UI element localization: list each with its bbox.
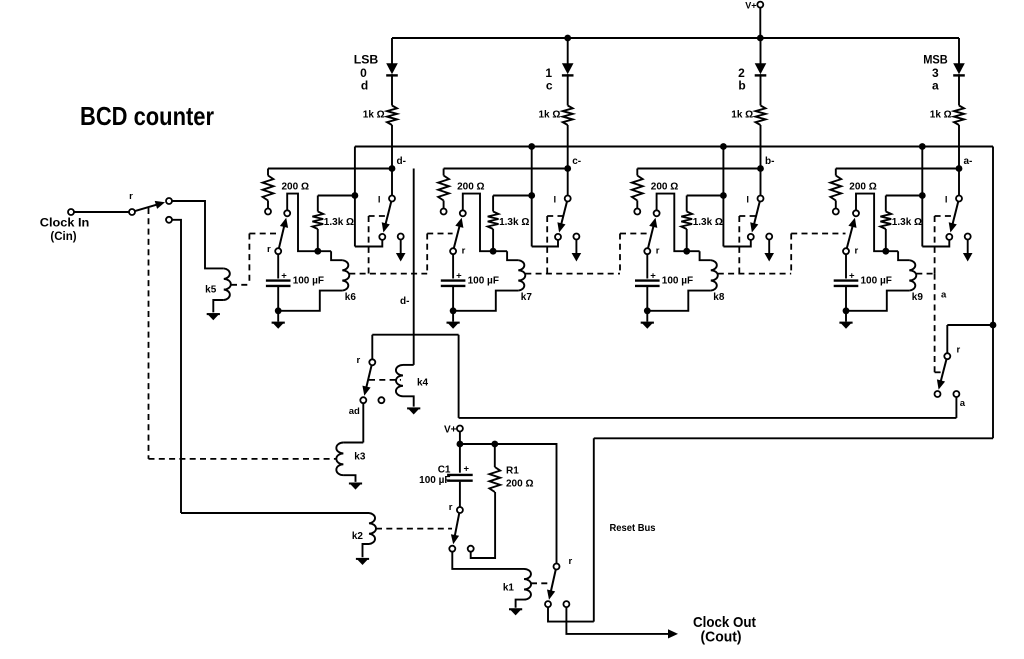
svg-text:r: r (855, 246, 859, 257)
svg-text:100 µF: 100 µF (419, 475, 450, 486)
svg-text:R1: R1 (506, 465, 519, 476)
svg-text:k8: k8 (713, 292, 725, 303)
svg-text:k9: k9 (912, 292, 924, 303)
svg-text:r: r (656, 246, 660, 257)
svg-text:C1: C1 (438, 464, 451, 475)
svg-text:d-: d- (400, 296, 409, 307)
svg-text:d-: d- (397, 156, 406, 167)
svg-text:200 Ω: 200 Ω (849, 181, 876, 192)
svg-text:200 Ω: 200 Ω (457, 181, 484, 192)
svg-text:a: a (960, 398, 966, 409)
svg-text:d: d (361, 79, 368, 93)
svg-text:+: + (456, 271, 462, 282)
svg-text:1k Ω: 1k Ω (731, 110, 753, 121)
svg-text:+: + (849, 271, 855, 282)
svg-text:1k Ω: 1k Ω (930, 110, 952, 121)
svg-text:k7: k7 (521, 292, 533, 303)
svg-text:k3: k3 (354, 451, 366, 462)
svg-text:(Cin): (Cin) (50, 231, 76, 243)
svg-text:c: c (546, 79, 553, 93)
svg-text:ad: ad (349, 406, 360, 417)
svg-text:200 Ω: 200 Ω (282, 181, 309, 192)
svg-text:1k Ω: 1k Ω (538, 110, 560, 121)
svg-text:c-: c- (572, 156, 581, 167)
svg-text:1.3k Ω: 1.3k Ω (499, 217, 529, 228)
svg-text:V+: V+ (444, 424, 457, 435)
svg-text:100 µF: 100 µF (662, 276, 693, 287)
svg-text:V+: V+ (745, 1, 756, 11)
svg-text:r: r (462, 246, 466, 257)
svg-text:Reset Bus: Reset Bus (610, 522, 656, 534)
svg-text:MSB: MSB (923, 53, 948, 67)
svg-text:a-: a- (964, 156, 973, 167)
svg-text:1k Ω: 1k Ω (363, 110, 385, 121)
svg-text:r: r (569, 556, 573, 567)
svg-text:1.3k Ω: 1.3k Ω (324, 217, 354, 228)
svg-text:l: l (554, 194, 557, 205)
svg-text:r: r (449, 502, 453, 513)
svg-text:r: r (957, 344, 961, 355)
svg-text:r: r (356, 355, 360, 366)
svg-text:1.3k Ω: 1.3k Ω (693, 217, 723, 228)
svg-text:l: l (945, 194, 948, 205)
svg-text:l: l (378, 194, 381, 205)
svg-text:LSB: LSB (354, 53, 379, 67)
svg-text:+: + (281, 271, 287, 282)
svg-text:200 Ω: 200 Ω (651, 181, 678, 192)
svg-text:+: + (464, 464, 470, 475)
svg-text:200 Ω: 200 Ω (506, 478, 533, 489)
svg-text:100 µF: 100 µF (861, 276, 892, 287)
svg-text:b-: b- (765, 156, 774, 167)
svg-text:l: l (746, 194, 749, 205)
svg-text:r: r (267, 244, 271, 255)
svg-text:1.3k Ω: 1.3k Ω (892, 217, 922, 228)
svg-text:k5: k5 (205, 285, 217, 296)
svg-text:a: a (932, 79, 939, 93)
svg-text:100 µF: 100 µF (293, 276, 324, 287)
svg-text:Clock In: Clock In (40, 217, 90, 229)
svg-text:k2: k2 (352, 531, 364, 542)
svg-text:k1: k1 (503, 582, 515, 593)
svg-text:(Cout): (Cout) (701, 628, 742, 645)
svg-text:k6: k6 (345, 292, 357, 303)
svg-text:k4: k4 (417, 377, 429, 388)
svg-text:+: + (650, 271, 656, 282)
svg-text:BCD counter: BCD counter (80, 101, 214, 131)
svg-text:r: r (129, 191, 133, 202)
svg-text:100 µF: 100 µF (468, 276, 499, 287)
svg-text:a: a (941, 290, 947, 301)
svg-text:b: b (738, 79, 745, 93)
